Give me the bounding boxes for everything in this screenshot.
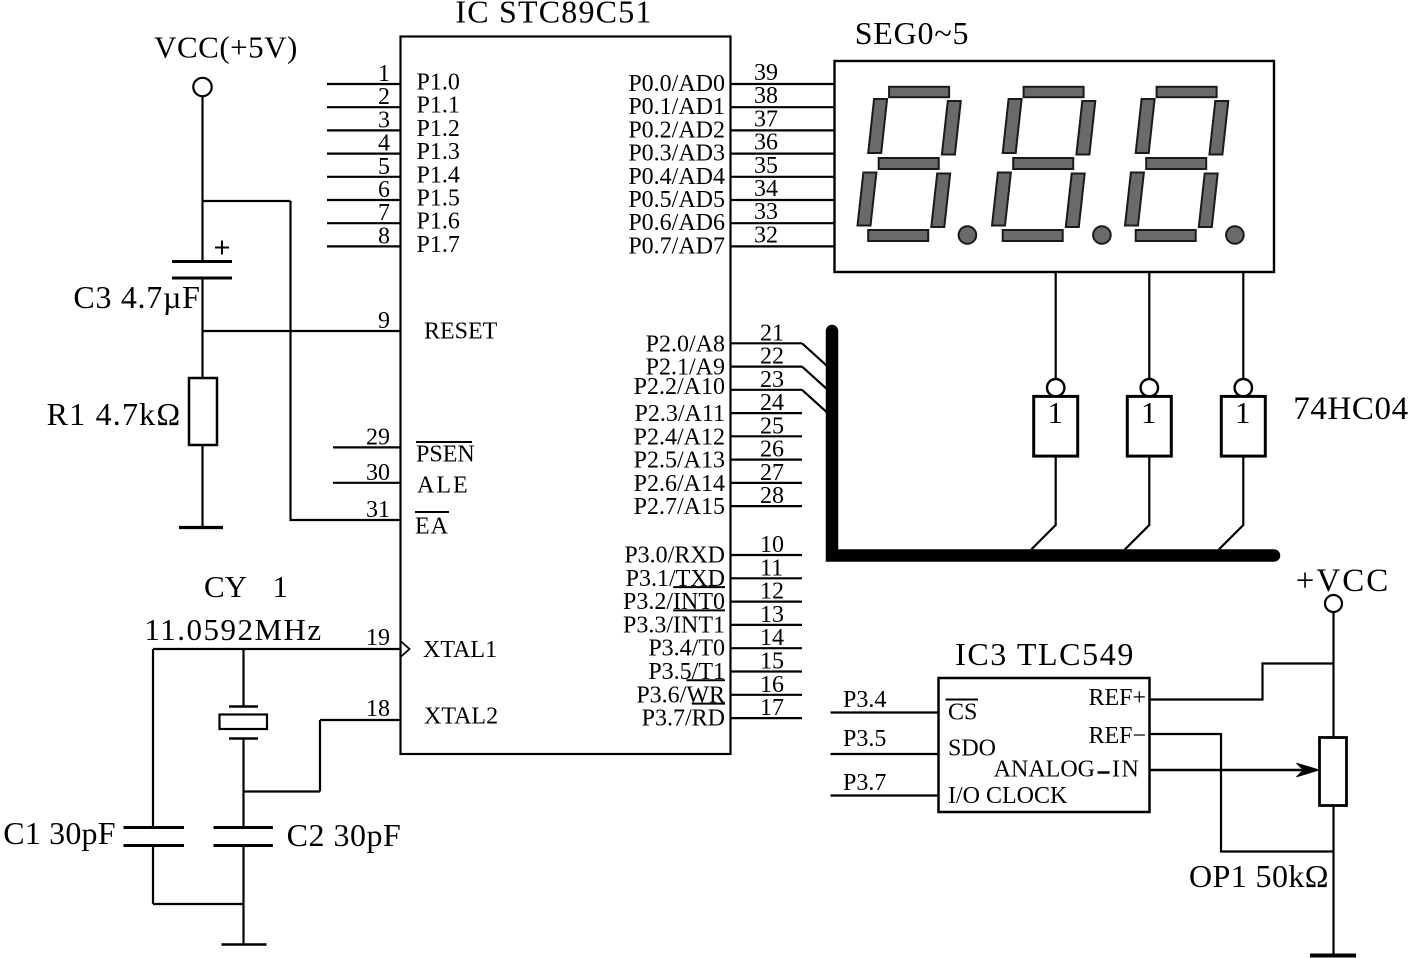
svg-text:16: 16 [760,672,784,698]
pin 5 P1.4 [327,154,460,189]
pin 29 PSEN [333,424,475,467]
svg-text:P1.2: P1.2 [417,116,460,142]
pin 17 P3.7/RD [642,695,802,732]
svg-text:P3.4: P3.4 [843,687,886,713]
power +VCC terminal [1296,563,1390,612]
wire crystal to XTAL2 [244,720,321,792]
svg-text:P3.0/RXD: P3.0/RXD [624,543,725,569]
svg-text:P2.0/A8: P2.0/A8 [646,331,725,357]
svg-text:P1.7: P1.7 [417,232,460,258]
resistor R1 4.7k [47,378,217,445]
svg-text:11: 11 [760,555,783,581]
wire inverter U2B to bus [1125,456,1150,549]
wire bottom node [153,846,244,945]
7-segment digit DS3 [1125,87,1244,244]
potentiometer OP1 50k body [1189,738,1346,895]
svg-text:C3 4.7µF: C3 4.7µF [73,279,200,315]
IC U1 STC89C51 body [401,0,731,754]
svg-text:P3.4/T0: P3.4/T0 [648,636,725,662]
pin 11 P3.1/TXD [626,555,802,592]
pin 6 P1.5 [327,177,460,212]
pin 19 XTAL1 [153,625,497,663]
pin 12 P3.2/INT0 [623,579,802,616]
pin 8 P1.7 [327,223,460,258]
svg-text:P1.0: P1.0 [417,70,460,96]
svg-text:P1.3: P1.3 [417,139,460,165]
svg-text:REF+: REF+ [1088,685,1146,711]
svg-text:C2 30pF: C2 30pF [287,817,402,853]
pin 38 P0.1/AD1 [628,83,834,120]
svg-text:36: 36 [754,130,778,156]
wire C3 to R1 [201,278,203,378]
svg-text:24: 24 [760,390,784,416]
pin 7 P1.6 [327,200,460,235]
svg-text:1: 1 [1047,395,1063,430]
svg-text:31: 31 [366,497,390,523]
svg-text:38: 38 [754,83,778,109]
svg-text:4: 4 [378,131,390,157]
svg-text:23: 23 [760,367,784,393]
ground bottom right [1310,954,1356,958]
svg-text:18: 18 [366,696,390,722]
svg-text:1: 1 [1235,395,1251,430]
svg-text:P1.6: P1.6 [417,209,460,235]
wire display to inverter U2C [1242,272,1244,379]
svg-text:CS: CS [948,700,977,726]
wire pot to ground [1332,806,1334,956]
TLC549 CS pin (P3.4 net) [831,687,979,726]
svg-text:+VCC: +VCC [1296,563,1390,599]
wire inverter U2C to bus [1219,456,1244,549]
pin 23 P2.2/A10 [634,367,828,414]
svg-text:P3.7: P3.7 [843,770,886,796]
svg-text:17: 17 [760,695,784,721]
svg-text:IN: IN [1112,757,1140,783]
svg-text:CY: CY [204,569,247,604]
ground under R1 [179,526,223,529]
pin 39 P0.0/AD0 [628,60,834,97]
svg-text:P2.7/A15: P2.7/A15 [634,494,725,520]
svg-text:R1 4.7kΩ: R1 4.7kΩ [47,396,182,432]
svg-text:EA: EA [415,514,449,540]
pin 2 P1.1 [327,84,460,119]
svg-text:1: 1 [378,61,390,87]
svg-text:11.0592MHz: 11.0592MHz [144,612,322,647]
svg-text:P2.5/A13: P2.5/A13 [634,448,725,474]
pin 9 RESET [203,308,498,345]
wire R1 to ground [201,445,203,528]
IC3 TLC549 body [939,636,1150,812]
pin 26 P2.5/A13 [634,437,802,474]
svg-text:P0.7/AD7: P0.7/AD7 [628,233,725,259]
svg-text:SDO: SDO [948,736,996,762]
pin 32 P0.7/AD7 [628,222,834,259]
svg-text:10: 10 [760,532,784,558]
svg-text:P2.6/A14: P2.6/A14 [634,471,725,497]
svg-text:27: 27 [760,460,784,486]
svg-text:P0.4/AD4: P0.4/AD4 [628,164,725,190]
ground under C2 [222,943,267,946]
pin 21 P2.0/A8 [646,320,828,367]
pin 27 P2.6/A14 [634,460,802,497]
svg-text:P3.5: P3.5 [843,726,886,752]
TLC549 I/O CLOCK pin (P3.7 net) [831,770,1069,809]
pin 3 P1.2 [327,107,460,141]
pin 13 P3.3/INT1 [623,602,802,639]
svg-text:XTAL1: XTAL1 [423,637,497,663]
7-segment digit DS2 [992,87,1111,244]
svg-text:34: 34 [754,176,778,202]
svg-text:P2.3/A11: P2.3/A11 [635,401,725,427]
svg-text:P1.5: P1.5 [417,186,460,212]
svg-text:15: 15 [760,649,784,675]
pin 36 P0.3/AD3 [628,130,834,167]
pin 30 ALE [333,460,470,499]
svg-text:IC3 TLC549: IC3 TLC549 [955,636,1135,672]
svg-text:P1.1: P1.1 [417,93,460,119]
svg-text:21: 21 [760,320,784,346]
svg-text:P3.7/RD: P3.7/RD [642,706,725,732]
svg-text:5: 5 [378,154,390,180]
svg-text:29: 29 [366,424,390,450]
pin 33 P0.6/AD6 [628,199,834,236]
svg-text:RESET: RESET [424,319,498,345]
svg-text:P0.5/AD5: P0.5/AD5 [628,187,725,213]
svg-text:P2.2/A10: P2.2/A10 [634,374,725,400]
pin 18 XTAL2 [320,696,498,730]
svg-text:30: 30 [366,460,390,486]
wire display to inverter U2B [1148,272,1150,379]
svg-text:32: 32 [754,222,778,248]
svg-text:P2.4/A12: P2.4/A12 [634,424,725,450]
pin 35 P0.4/AD4 [628,153,834,190]
pin 37 P0.2/AD2 [628,106,834,143]
capacitor C2 30pF [214,817,402,853]
wire +VCC to pot [1332,612,1334,738]
svg-text:P0.0/AD0: P0.0/AD0 [628,71,725,97]
svg-text:19: 19 [366,625,390,651]
svg-text:74HC04: 74HC04 [1293,391,1408,427]
svg-text:P0.3/AD3: P0.3/AD3 [628,141,725,167]
pin 22 P2.1/A9 [646,344,828,390]
TLC549 SDO pin (P3.5 net) [831,726,997,762]
svg-text:P0.1/AD1: P0.1/AD1 [628,94,725,120]
svg-text:SEG0~5: SEG0~5 [855,15,970,51]
svg-text:VCC(+5V): VCC(+5V) [154,30,298,65]
svg-text:P0.6/AD6: P0.6/AD6 [628,210,725,236]
svg-text:13: 13 [760,602,784,628]
svg-text:1: 1 [1141,395,1157,430]
svg-text:7: 7 [378,200,390,226]
svg-text:P3.3/INT1: P3.3/INT1 [623,612,725,638]
svg-text:1: 1 [273,569,289,604]
7-segment digit DS1 [858,87,977,244]
capacitor C1 30pF [3,649,184,904]
svg-text:9: 9 [378,308,390,334]
svg-text:22: 22 [760,344,784,370]
svg-text:8: 8 [378,223,390,249]
pin 15 P3.5/T1 [648,649,802,686]
pin 10 P3.0/RXD [624,532,802,569]
label 74HC04 [1293,391,1408,427]
wire inverter U2A to bus [1031,456,1056,549]
svg-text:39: 39 [754,60,778,86]
pin 14 P3.4/T0 [648,625,802,662]
wire VCC to C3 [201,96,203,262]
pin 4 P1.3 [327,131,460,166]
TLC549 REF+ pin wire to +VCC [1088,664,1333,712]
svg-text:37: 37 [754,106,778,132]
capacitor C3 4.7uF (polarized) [73,241,232,316]
svg-text:3: 3 [378,107,390,133]
svg-text:I/O CLOCK: I/O CLOCK [948,783,1068,809]
crystal CY1 11.0592MHz [144,569,322,828]
wire display to inverter U2A [1055,272,1057,379]
pin 16 P3.6/WR [636,672,802,709]
svg-text:35: 35 [754,153,778,179]
pin 28 P2.7/A15 [634,483,802,520]
svg-text:OP1 50kΩ: OP1 50kΩ [1189,858,1329,894]
pin 31 EA [291,497,450,540]
power VCC(+5V) terminal [154,30,298,97]
svg-text:PSEN: PSEN [416,442,475,468]
svg-text:2: 2 [378,84,390,110]
bus thick L wire [832,331,1274,556]
svg-text:ANALOG: ANALOG [994,757,1095,783]
TLC549 ANALOG_IN pin arrow to pot wiper [994,757,1319,783]
svg-text:14: 14 [760,625,784,651]
pin 25 P2.4/A12 [634,413,802,450]
svg-text:25: 25 [760,413,784,439]
svg-text:ALE: ALE [417,473,470,499]
pin 1 P1.0 [327,61,460,96]
svg-text:P0.2/AD2: P0.2/AD2 [628,117,725,143]
inverter U2B (74HC04 gate) [1127,379,1171,456]
svg-text:6: 6 [378,177,390,203]
display SEG0~5 box [835,15,1275,272]
TLC549 REF- pin wire to pot bottom [1088,723,1333,852]
wire VCC branch to EA [203,201,291,521]
svg-text:IC STC89C51: IC STC89C51 [455,0,652,30]
svg-text:28: 28 [760,483,784,509]
inverter U2C (74HC04 gate) [1221,379,1265,456]
svg-text:12: 12 [760,579,784,605]
svg-text:33: 33 [754,199,778,225]
svg-text:C1 30pF: C1 30pF [3,815,116,851]
pin 34 P0.5/AD5 [628,176,834,213]
svg-text:XTAL2: XTAL2 [424,704,498,730]
svg-text:REF−: REF− [1088,723,1146,749]
svg-text:P1.4: P1.4 [417,162,460,188]
svg-text:26: 26 [760,437,784,463]
pin 24 P2.3/A11 [635,390,802,427]
inverter U2A (74HC04 gate) [1034,379,1078,456]
